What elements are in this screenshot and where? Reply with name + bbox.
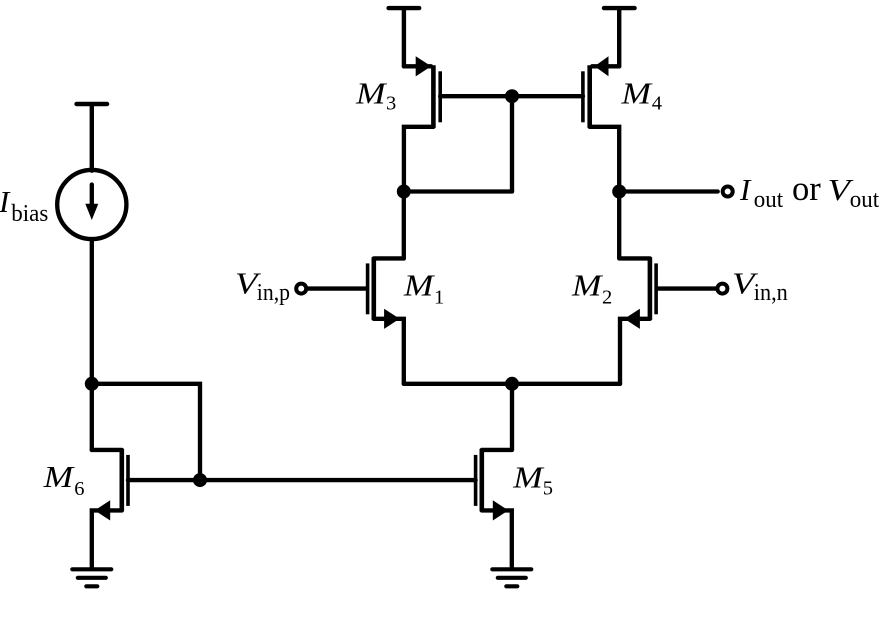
svg-text:in,p: in,p bbox=[257, 279, 290, 306]
svg-text:I: I bbox=[739, 172, 752, 207]
M5 source arrow (NMOS) bbox=[493, 500, 509, 520]
M5 channel bar bbox=[479, 449, 484, 512]
svg-text:2: 2 bbox=[602, 286, 612, 308]
wire M6 gate to M5 gate bbox=[128, 478, 476, 482]
node M3 drain bbox=[397, 185, 411, 199]
svg-text:5: 5 bbox=[543, 477, 553, 499]
M2 gate wire bbox=[658, 286, 718, 290]
M5 source stub bbox=[482, 510, 512, 568]
transistor M6 (NMOS) bbox=[92, 449, 128, 568]
svg-text:3: 3 bbox=[386, 92, 396, 114]
M4 source arrow (PMOS) bbox=[595, 56, 609, 76]
wire mirror node down bbox=[510, 96, 514, 191]
node gate bias bbox=[193, 473, 207, 487]
wire tail bbox=[404, 382, 620, 386]
wire M3 drain to M1 drain bbox=[402, 192, 406, 259]
transistor M4 (PMOS) bbox=[583, 56, 619, 191]
M1 gate wire bbox=[306, 286, 366, 290]
svg-text:4: 4 bbox=[652, 92, 662, 114]
node bias bbox=[85, 377, 99, 391]
wire output node to terminal bbox=[619, 189, 718, 193]
svg-text:out: out bbox=[754, 186, 783, 213]
terminal V_in,n bbox=[717, 284, 727, 294]
M6 drain stub bbox=[92, 448, 122, 452]
transistor M2 (NMOS) bbox=[620, 257, 718, 383]
terminal V_in,p bbox=[296, 284, 306, 294]
svg-text:M: M bbox=[571, 268, 604, 303]
transistor M1 (NMOS) bbox=[306, 257, 404, 383]
current source I_bias arrow head bbox=[85, 204, 98, 220]
wire I_bias to M6 drain bbox=[90, 239, 94, 450]
M4 drain stub bbox=[590, 127, 620, 192]
M3 source stub bbox=[404, 64, 431, 68]
M4 channel bar bbox=[587, 65, 592, 128]
M2 source arrow (NMOS) bbox=[624, 309, 640, 329]
M4 source stub bbox=[592, 64, 619, 68]
M2 channel bar bbox=[648, 257, 653, 319]
M1 source arrow (NMOS) bbox=[384, 309, 400, 329]
VDD rail above M3 bbox=[389, 8, 420, 66]
terminal output bbox=[723, 187, 733, 197]
M1 source stub bbox=[374, 319, 404, 384]
wire tail to M5 drain bbox=[510, 384, 514, 450]
svg-text:or: or bbox=[792, 169, 821, 208]
M6 gate bar bbox=[126, 455, 130, 506]
svg-text:1: 1 bbox=[434, 287, 444, 309]
VDD rail above M4 bbox=[604, 8, 635, 66]
M6 channel bar bbox=[120, 449, 125, 512]
VDD rail above I_bias bbox=[77, 104, 108, 171]
M2 gate bar bbox=[654, 263, 658, 314]
M2 source stub bbox=[620, 319, 650, 384]
wire bias node to gate node bbox=[92, 384, 200, 480]
M5 gate bar bbox=[474, 455, 478, 506]
M1 gate bar bbox=[366, 263, 370, 314]
current source I_bias circle bbox=[57, 170, 126, 239]
M3 drain stub bbox=[404, 127, 434, 192]
svg-text:M: M bbox=[512, 459, 545, 494]
svg-text:I: I bbox=[0, 184, 11, 219]
M2 drain stub bbox=[620, 256, 650, 260]
node tail bbox=[505, 377, 519, 391]
node gate mirror bbox=[505, 89, 519, 103]
M1 drain stub bbox=[374, 256, 404, 260]
ground below M6 bbox=[72, 569, 111, 586]
svg-text:M: M bbox=[620, 76, 653, 111]
M1 channel bar bbox=[371, 257, 376, 319]
current source I_bias arrow shaft bbox=[90, 185, 94, 206]
node output bbox=[612, 185, 626, 199]
M3 gate bar bbox=[438, 71, 442, 122]
svg-text:M: M bbox=[355, 76, 388, 111]
transistor M5 (NMOS) bbox=[476, 449, 512, 568]
M6 source stub bbox=[92, 510, 122, 568]
M3 channel bar bbox=[431, 65, 436, 128]
svg-text:in,n: in,n bbox=[754, 279, 788, 306]
svg-text:bias: bias bbox=[11, 200, 48, 227]
M3 source arrow (PMOS) bbox=[416, 56, 432, 76]
svg-text:M: M bbox=[403, 268, 436, 303]
svg-text:out: out bbox=[850, 186, 879, 213]
ground below M5 bbox=[492, 569, 531, 586]
wire M4 drain to M2 drain bbox=[617, 192, 621, 259]
wire diode connection bbox=[404, 189, 512, 193]
svg-text:M: M bbox=[42, 459, 75, 494]
svg-text:6: 6 bbox=[74, 478, 84, 500]
M6 source arrow (NMOS) bbox=[95, 500, 111, 520]
wire M3 gate to M4 gate bbox=[440, 94, 583, 98]
M5 drain stub bbox=[482, 448, 512, 452]
M4 gate bar bbox=[581, 71, 585, 122]
transistor M3 (PMOS) bbox=[404, 56, 440, 191]
